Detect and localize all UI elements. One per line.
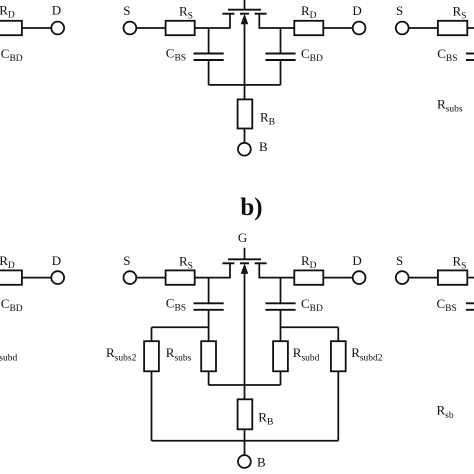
svg-text:Rsubs: Rsubs xyxy=(437,96,463,114)
mosfet M2 gate plate xyxy=(228,258,261,260)
terminal D (bottom-left) xyxy=(51,271,64,284)
wire RD to D (top-left) xyxy=(22,27,51,29)
wire bulk node to RB xyxy=(244,385,246,399)
svg-text:RS: RS xyxy=(179,3,193,21)
label Rsb (bottom-right) xyxy=(437,402,454,421)
capacitor CBS xyxy=(194,278,224,342)
label D (top-left) xyxy=(52,2,61,17)
label RB xyxy=(260,110,275,128)
label CBS (bottom-right) xyxy=(437,296,457,314)
mosfet M2 channel segments xyxy=(222,262,266,264)
svg-text:RB: RB xyxy=(258,409,273,427)
resistor Rsubd xyxy=(273,341,288,371)
wire tie Rsubs-Rsubd xyxy=(209,384,281,386)
terminal S xyxy=(123,271,136,284)
label S xyxy=(123,3,130,18)
mosfet M1 source lead xyxy=(229,14,231,29)
svg-text:RD: RD xyxy=(0,253,15,271)
wire branch to Rsubd2 xyxy=(281,327,339,341)
resistor RS (bottom-right) xyxy=(438,270,467,284)
wire Rsubs to tie xyxy=(208,371,210,385)
resistor RD (top-left, cut at edge) xyxy=(0,21,22,35)
resistor RS xyxy=(166,21,195,35)
label CBD (top-left) xyxy=(1,46,23,64)
svg-text:CBD: CBD xyxy=(301,46,323,64)
wire RB to B xyxy=(244,429,246,455)
svg-text:CBS: CBS xyxy=(437,46,457,64)
wire S to RS xyxy=(136,277,165,279)
wire S to RS xyxy=(136,27,165,29)
wire branch to Rsubs2 xyxy=(152,327,209,341)
svg-text:CBS: CBS xyxy=(166,46,186,64)
svg-text:RD: RD xyxy=(301,253,317,271)
wire S to RS (top-right) xyxy=(409,27,438,29)
label RS xyxy=(179,253,193,271)
wire RS to mosfet source xyxy=(195,27,230,29)
svg-text:RS: RS xyxy=(453,253,467,271)
label Rsubs (top-right) xyxy=(437,96,463,114)
wire mosfet drain to RD xyxy=(259,277,294,279)
mosfet M2 gate lead xyxy=(244,248,246,260)
label RD xyxy=(301,253,317,271)
svg-text:S: S xyxy=(396,3,403,18)
svg-text:CBD: CBD xyxy=(301,296,323,314)
svg-text:CBS: CBS xyxy=(166,296,186,314)
svg-text:Rsb: Rsb xyxy=(437,402,454,421)
svg-text:S: S xyxy=(123,253,130,268)
label D xyxy=(352,253,361,268)
capacitor CBS partial plates (top-right) xyxy=(466,54,474,61)
terminal D xyxy=(353,22,366,35)
svg-text:CBD: CBD xyxy=(1,296,23,314)
label S (top-right) xyxy=(396,3,403,18)
label D xyxy=(352,3,361,18)
wire bottom rail (caps to bulk) xyxy=(209,84,281,86)
svg-text:RB: RB xyxy=(260,110,275,128)
mosfet M1 gate plate xyxy=(228,9,261,11)
wire RD to D xyxy=(323,27,352,29)
resistor Rsubs xyxy=(201,341,216,371)
label RB xyxy=(258,409,273,427)
wire Rsubs2 to bottom rail xyxy=(151,371,153,441)
label CBS xyxy=(166,296,186,314)
svg-text:Rsubd: Rsubd xyxy=(293,345,320,364)
wire mosfet drain to RD xyxy=(259,27,294,29)
label D (bottom-left) xyxy=(52,253,61,268)
wire bottom rail xyxy=(152,440,339,442)
mosfet M1 bulk arrow xyxy=(241,14,249,85)
capacitor CBD xyxy=(265,28,295,85)
svg-text:RD: RD xyxy=(301,3,317,21)
resistor RD xyxy=(294,21,323,35)
wire bulk node to RB xyxy=(244,85,246,100)
wire RS stub to edge (bottom-right) xyxy=(467,277,474,279)
svg-text:b): b) xyxy=(240,194,262,221)
wire Rsubd to tie xyxy=(280,371,282,385)
resistor Rsubd2 xyxy=(331,341,346,371)
terminal S (bottom-right) xyxy=(396,271,409,284)
svg-text:RS: RS xyxy=(179,253,193,271)
label Rsubs xyxy=(166,345,192,364)
mosfet M2 drain lead xyxy=(258,263,260,278)
svg-text:S: S xyxy=(123,3,130,18)
svg-text:RD: RD xyxy=(0,2,15,20)
resistor RS (top-right) xyxy=(438,21,467,35)
wire RS to mosfet source xyxy=(195,277,230,279)
terminal D (top-left) xyxy=(51,22,64,35)
label RD (bottom-left) xyxy=(0,253,15,271)
mosfet M2 bulk arrow xyxy=(241,263,249,385)
svg-text:Rsubd2: Rsubd2 xyxy=(351,345,383,364)
resistor RB xyxy=(238,399,253,429)
svg-text:D: D xyxy=(52,2,61,17)
resistor RD xyxy=(294,270,323,284)
svg-text:D: D xyxy=(352,3,361,18)
svg-text:G: G xyxy=(238,230,247,245)
svg-text:CBD: CBD xyxy=(1,46,23,64)
svg-text:Rsubd: Rsubd xyxy=(0,345,17,364)
figure label b) xyxy=(240,194,262,221)
svg-text:RS: RS xyxy=(453,3,467,21)
capacitor CBS xyxy=(194,28,224,85)
terminal S xyxy=(123,22,136,35)
wire RD to D xyxy=(323,277,352,279)
label RD (top-left) xyxy=(0,2,15,20)
mosfet M1 drain lead xyxy=(258,14,260,29)
label S (bottom-right) xyxy=(396,253,403,268)
label S xyxy=(123,253,130,268)
label RS (bottom-right) xyxy=(453,253,467,271)
label B xyxy=(257,454,266,469)
wire RS stub to edge (top-right) xyxy=(467,27,474,29)
svg-text:Rsubs: Rsubs xyxy=(166,345,192,364)
label RS (top-right) xyxy=(453,3,467,21)
label RS xyxy=(179,3,193,21)
mosfet M1 gate lead xyxy=(244,0,246,10)
label G xyxy=(238,230,247,245)
terminal S (top-right) xyxy=(396,22,409,35)
terminal B xyxy=(238,455,251,468)
resistor RB xyxy=(238,99,253,128)
svg-text:B: B xyxy=(257,454,266,469)
resistor RD (bottom-left, cut at edge) xyxy=(0,270,22,284)
label Rsubd tail (bottom-left) xyxy=(0,345,17,364)
svg-text:CBS: CBS xyxy=(437,296,457,314)
svg-text:S: S xyxy=(396,253,403,268)
label Rsubs2 xyxy=(106,345,137,364)
label RD xyxy=(301,3,317,21)
terminal B xyxy=(238,143,251,156)
label CBS xyxy=(166,46,186,64)
resistor Rsubs2 xyxy=(144,341,159,371)
svg-text:D: D xyxy=(352,253,361,268)
label Rsubd2 xyxy=(351,345,383,364)
label CBS (top-right) xyxy=(437,46,457,64)
terminal D xyxy=(353,271,366,284)
label CBD xyxy=(301,296,323,314)
label B xyxy=(259,139,268,154)
svg-text:D: D xyxy=(52,253,61,268)
mosfet M2 source lead xyxy=(229,263,231,278)
capacitor CBD xyxy=(265,278,295,342)
svg-text:Rsubs2: Rsubs2 xyxy=(106,345,137,364)
capacitor CBS partial plates (bottom-right) xyxy=(466,303,474,310)
label CBD xyxy=(301,46,323,64)
svg-text:B: B xyxy=(259,139,268,154)
label Rsubd xyxy=(293,345,320,364)
wire RD to D (bottom-left) xyxy=(22,277,51,279)
resistor RS xyxy=(166,270,195,284)
mosfet M1 channel segments xyxy=(222,13,266,15)
wire Rsubd2 to bottom rail xyxy=(337,371,339,441)
wire RB to B xyxy=(244,129,246,143)
wire S to RS (bottom-right) xyxy=(409,277,438,279)
label CBD (bottom-left) xyxy=(1,296,23,314)
